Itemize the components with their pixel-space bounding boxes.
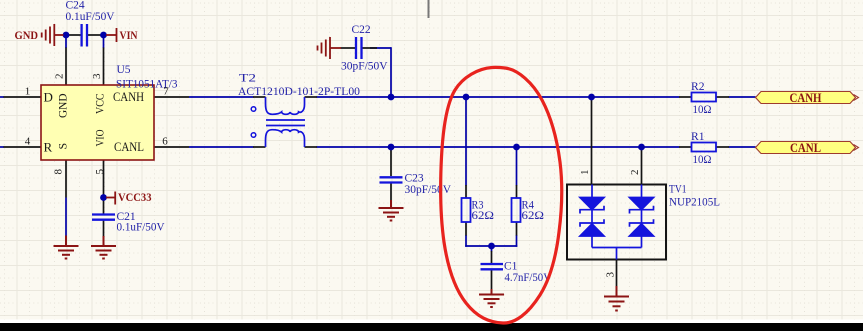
svg-text:5: 5 <box>94 169 106 175</box>
svg-text:VCC33: VCC33 <box>118 192 152 204</box>
svg-text:VCC: VCC <box>93 94 107 115</box>
svg-text:C24: C24 <box>66 0 85 12</box>
svg-text:3: 3 <box>605 272 617 278</box>
svg-text:4: 4 <box>25 136 31 148</box>
svg-text:S: S <box>56 143 70 150</box>
svg-text:62Ω: 62Ω <box>522 210 545 222</box>
svg-text:C22: C22 <box>352 24 371 36</box>
svg-text:62Ω: 62Ω <box>472 210 495 222</box>
svg-text:C23: C23 <box>405 173 424 185</box>
svg-text:8: 8 <box>53 169 65 175</box>
svg-text:CANL: CANL <box>114 139 144 154</box>
svg-text:2: 2 <box>54 74 66 80</box>
svg-text:VIO: VIO <box>93 129 107 146</box>
svg-text:6: 6 <box>162 136 168 148</box>
svg-text:1: 1 <box>579 170 591 176</box>
svg-text:U5: U5 <box>117 64 131 76</box>
svg-text:ACT1210D-101-2P-TL00: ACT1210D-101-2P-TL00 <box>238 86 360 98</box>
svg-text:TV1: TV1 <box>669 184 687 196</box>
svg-text:10Ω: 10Ω <box>693 154 712 166</box>
svg-text:0.1uF/50V: 0.1uF/50V <box>117 222 166 234</box>
svg-text:30pF/50V: 30pF/50V <box>341 61 388 73</box>
svg-text:R1: R1 <box>691 131 705 143</box>
svg-text:7: 7 <box>163 86 169 98</box>
svg-text:GND: GND <box>15 30 39 42</box>
svg-text:CANH: CANH <box>113 89 144 104</box>
svg-text:R2: R2 <box>691 81 705 93</box>
svg-text:3: 3 <box>91 73 103 79</box>
svg-text:0.1uF/50V: 0.1uF/50V <box>66 11 116 23</box>
svg-text:CANL: CANL <box>790 140 821 155</box>
svg-text:4.7nF/50V: 4.7nF/50V <box>505 272 552 284</box>
svg-text:CANH: CANH <box>790 90 822 105</box>
svg-text:D: D <box>44 90 53 105</box>
svg-text:2: 2 <box>629 170 641 176</box>
svg-text:VIN: VIN <box>120 30 139 42</box>
svg-text:C1: C1 <box>504 261 518 273</box>
svg-text:T2: T2 <box>239 73 256 85</box>
svg-text:1: 1 <box>25 86 31 98</box>
svg-text:R: R <box>44 140 53 155</box>
svg-text:GND: GND <box>56 93 70 118</box>
svg-text:NUP2105L: NUP2105L <box>669 197 720 209</box>
svg-text:10Ω: 10Ω <box>693 104 712 116</box>
svg-text:30pF/50V: 30pF/50V <box>405 184 452 196</box>
